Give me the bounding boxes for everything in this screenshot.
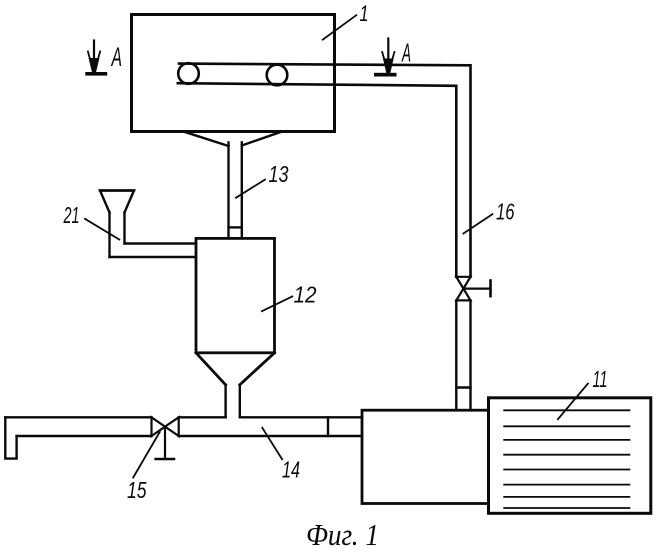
section arrow A left, shaft (93, 41, 95, 62)
vessel 12 body (196, 238, 275, 352)
section arrow A right, head (384, 59, 393, 73)
vessel 12 cone left (196, 353, 226, 385)
svg-text:15: 15 (127, 477, 147, 503)
pipe 14 joint mark (327, 417, 329, 436)
funnel 21 cup rim (100, 189, 134, 191)
pipe 16 joint mark (456, 386, 470, 388)
valve 16 handle T-bar (489, 281, 492, 297)
leader line for label 13 (236, 180, 265, 198)
valve 15 stem (164, 427, 166, 459)
conveyor roller right (267, 65, 288, 86)
conveyor roller left (178, 63, 199, 84)
valve on pipe 16 (upper triangle) (456, 277, 470, 289)
svg-text:A: A (401, 38, 411, 68)
leader line for label 14 (262, 428, 282, 459)
heat exchanger 11 fins (504, 410, 629, 508)
valve 15 handle T-bar (156, 458, 174, 461)
pipe 14 top wall (vessel neck to pump) (240, 416, 362, 418)
svg-text:14: 14 (282, 457, 300, 483)
feed funnel 21 cup (100, 191, 134, 213)
section arrow A right, shaft (387, 39, 389, 62)
funnel 21 horizontal pipe bottom wall (110, 256, 197, 258)
svg-text:Фиг. 1: Фиг. 1 (306, 517, 379, 549)
pipe 14 left discharge spout (5, 417, 16, 458)
svg-text:1: 1 (360, 1, 369, 26)
pipe 14 top wall (left of valve 15) (5, 416, 151, 418)
container 1 (drum housing) (132, 15, 335, 132)
pipe 13 left wall (227, 143, 229, 239)
leader line for label 15 (133, 432, 160, 478)
section arrow A left, barbs (88, 52, 100, 64)
vessel 12 outlet neck left wall (224, 385, 226, 418)
funnel 21 downpipe left wall (108, 213, 110, 258)
leader line for label 16 (463, 214, 492, 233)
svg-text:11: 11 (593, 366, 608, 392)
section arrow A left, head (89, 59, 99, 73)
vessel 12 cone right (240, 353, 275, 385)
svg-text:12: 12 (294, 282, 317, 308)
leader line for label 12 (262, 296, 292, 311)
pump box (362, 410, 489, 503)
funnel under container 1, left slope (184, 132, 229, 146)
section arrow A left, base bar (85, 72, 107, 76)
svg-text:13: 13 (269, 161, 289, 187)
valve 16 stem (463, 288, 490, 290)
pipe 13 right wall (241, 142, 243, 238)
pipe 14 bottom wall (valve to pump) (179, 435, 362, 437)
valve on pipe 16 (lower triangle) (456, 289, 470, 301)
conveyor belt top line continuing as pipe 16 outer wall (179, 64, 471, 277)
pipe 16 lower section left wall (455, 300, 457, 410)
conveyor belt bottom line continuing as pipe 16 inner wall (178, 83, 457, 277)
valve 15 right triangle (165, 417, 179, 436)
heat exchanger 11 body (489, 398, 651, 514)
funnel under container 1, right slope (242, 132, 282, 146)
pipe 14 top wall (valve to vessel neck) (179, 416, 226, 418)
pipe 13 joint mark (229, 226, 242, 228)
section arrow A right, base bar (374, 73, 397, 77)
svg-text:21: 21 (63, 202, 80, 228)
leader line for label 21 (85, 219, 119, 240)
leader line for label 1 (323, 15, 357, 39)
leader line for label 11 (558, 384, 588, 420)
funnel 21 downpipe right wall (123, 213, 125, 244)
section arrow A right, barbs (382, 52, 394, 64)
svg-text:16: 16 (496, 199, 515, 225)
valve 15 left triangle (152, 417, 166, 436)
vessel 12 outlet neck right wall (239, 385, 241, 418)
svg-text:A: A (110, 42, 122, 72)
pipe 16 lower section right wall (469, 300, 471, 410)
pipe 14 bottom wall (left of valve 15) (17, 435, 152, 437)
funnel 21 horizontal pipe top wall (125, 242, 197, 244)
